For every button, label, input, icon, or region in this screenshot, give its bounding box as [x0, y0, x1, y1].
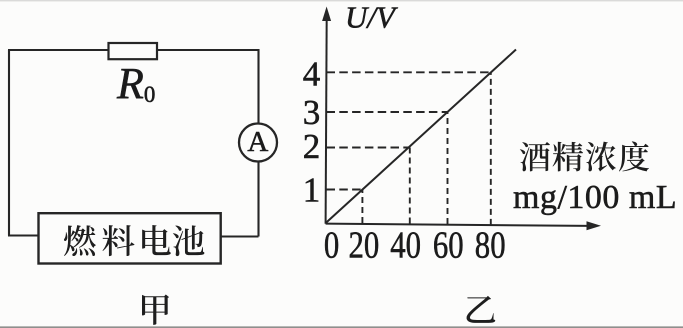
U(x) line — [326, 50, 516, 223]
wire bottom-right to fuel cell — [221, 235, 259, 237]
dashed level U=4 — [327, 71, 491, 73]
dashed level U=1 — [327, 189, 363, 191]
caption 甲 (diagram A) — [142, 294, 169, 324]
dashed drop x=60 — [447, 112, 449, 224]
label 电 (fuel cell text char 3) — [142, 225, 171, 255]
fuel cell box — [39, 213, 221, 263]
dashed drop x=40 — [409, 148, 411, 224]
svg-text:2: 2 — [303, 127, 321, 166]
axis label 浓 (concentration char 3) — [586, 142, 616, 172]
dashed level U=2 — [327, 147, 410, 149]
wire right vertical lower — [257, 161, 259, 236]
x tick label 0 — [324, 223, 339, 266]
wire top-left to resistor — [8, 49, 109, 51]
x tick label 20 — [349, 223, 380, 266]
wire bottom-left to fuel cell — [8, 234, 39, 236]
svg-text:20: 20 — [349, 223, 380, 266]
resistor R0 — [109, 43, 158, 59]
x tick label 80 — [475, 223, 506, 266]
axis label 精 (concentration char 2) — [553, 142, 583, 172]
wire resistor to top-right corner — [157, 49, 259, 51]
scan edge bottom — [0, 326, 683, 328]
dashed drop x=80 — [490, 72, 492, 225]
axis label 酒 (concentration char 1) — [520, 142, 550, 171]
svg-text:A: A — [247, 126, 268, 158]
wire right vertical upper — [257, 49, 259, 124]
x-axis concentration — [326, 221, 601, 230]
scan edge top — [0, 0, 683, 2]
svg-text:4: 4 — [303, 55, 321, 94]
x tick label 40 — [390, 223, 421, 266]
svg-text:mg/100 mL: mg/100 mL — [513, 179, 677, 216]
svg-text:0: 0 — [324, 223, 339, 266]
y-axis U/V — [322, 7, 331, 224]
label 料 (fuel cell text char 2) — [103, 225, 135, 256]
svg-text:40: 40 — [390, 223, 421, 266]
x tick label 60 — [433, 223, 464, 266]
label 池 (fuel cell text char 4) — [173, 225, 205, 256]
dashed drop x=20 — [361, 190, 363, 224]
svg-text:1: 1 — [303, 171, 321, 210]
dashed level U=3 — [327, 111, 448, 113]
wire left vertical — [8, 50, 10, 236]
ammeter A — [239, 124, 277, 162]
axis label 度 (concentration char 4) — [619, 141, 649, 171]
svg-text:80: 80 — [475, 223, 506, 266]
svg-text:U/V: U/V — [345, 0, 398, 34]
caption 乙 (diagram B) — [466, 296, 495, 323]
svg-text:60: 60 — [433, 223, 464, 266]
label 燃 (fuel cell text char 1) — [64, 225, 96, 256]
